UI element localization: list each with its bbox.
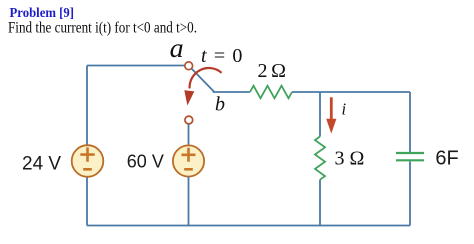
switch terminal a (open circle)	[185, 62, 193, 70]
wire junction down to resistor 3Ω	[319, 92, 321, 137]
switch terminal b (open circle)	[185, 116, 193, 124]
wire resistor 3Ω to bottom rail	[319, 180, 321, 226]
wire right vertical lower (capacitor to bottom rail)	[409, 162, 411, 226]
svg-text:i: i	[342, 99, 347, 118]
svg-text:a: a	[170, 33, 184, 63]
wire resistor 2Ω to top-right corner	[292, 91, 410, 93]
svg-text:3 Ω: 3 Ω	[335, 148, 365, 170]
wire right vertical upper (top rail to capacitor)	[409, 92, 411, 152]
wire terminal b to 60V source	[188, 124, 190, 145]
svg-text:6F: 6F	[435, 147, 458, 169]
svg-text:60 V: 60 V	[127, 152, 164, 172]
svg-text:Problem [9]: Problem [9]	[10, 5, 75, 20]
switch blade wire from terminal a down to horizontal wire	[192, 69, 250, 92]
svg-text:t = 0: t = 0	[201, 45, 242, 67]
switch action arc (red curved arrow)	[190, 68, 222, 88]
resistor R1 2Ω zigzag	[250, 86, 292, 99]
svg-text:24 V: 24 V	[22, 154, 61, 175]
voltage source V1 24V	[72, 145, 104, 177]
wire left vertical lower (24V source to bottom rail)	[86, 177, 88, 226]
svg-text:b: b	[215, 94, 225, 116]
wire bottom rail	[87, 225, 410, 227]
wire top rail from left corner to switch terminal a	[87, 65, 184, 67]
wire left vertical upper (top rail to 24V source)	[86, 66, 88, 146]
resistor R2 3Ω zigzag	[315, 137, 325, 180]
wire 60V source to bottom rail	[188, 177, 190, 226]
svg-text:2Ω: 2Ω	[258, 60, 287, 82]
current arrow i	[326, 97, 336, 133]
voltage source V2 60V	[173, 145, 204, 176]
switch arc arrowhead	[184, 90, 194, 105]
capacitor C1 6F plates	[396, 153, 424, 160]
